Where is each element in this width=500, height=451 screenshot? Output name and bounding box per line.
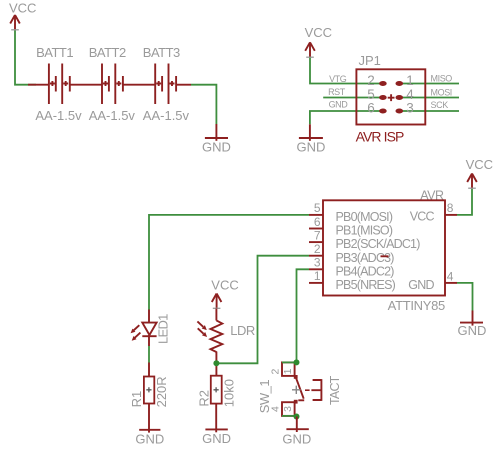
- power VCC (IC right): [466, 157, 493, 189]
- svg-text:1: 1: [406, 73, 414, 88]
- svg-text:MISO: MISO: [431, 73, 453, 83]
- svg-text:LED1: LED1: [156, 314, 171, 344]
- pin 6 stub: [309, 228, 323, 230]
- svg-text:TACT: TACT: [328, 375, 342, 405]
- wire JP1 MISO: [399, 83, 459, 85]
- resistor R1 220R: [129, 376, 169, 407]
- pin 8 stub: [445, 214, 457, 216]
- svg-text:AA-1.5v: AA-1.5v: [35, 108, 82, 123]
- svg-text:PB4(ADC2): PB4(ADC2): [336, 264, 395, 278]
- svg-text:PB1(MISO): PB1(MISO): [336, 224, 393, 238]
- svg-text:6: 6: [367, 101, 375, 116]
- svg-text:1: 1: [314, 269, 321, 283]
- pin 7 stub: [309, 241, 323, 243]
- svg-text:RST: RST: [328, 87, 346, 97]
- svg-text:VTG: VTG: [329, 74, 347, 84]
- svg-text:3: 3: [406, 101, 414, 116]
- wire JP1 RST stub: [323, 97, 383, 99]
- svg-text:220R: 220R: [154, 376, 169, 407]
- pin 2 stub: [309, 255, 323, 257]
- svg-text:AVR ISP: AVR ISP: [356, 129, 404, 145]
- power VCC (JP1): [305, 25, 332, 58]
- svg-text:2: 2: [269, 369, 281, 375]
- svg-text:R2: R2: [197, 390, 212, 407]
- svg-text:2: 2: [367, 73, 375, 88]
- switch SW_1 TACT: [257, 362, 342, 416]
- svg-text:GND: GND: [408, 278, 434, 292]
- svg-text:ATTINY85: ATTINY85: [388, 298, 445, 313]
- svg-text:R1: R1: [129, 391, 144, 408]
- svg-text:GND: GND: [202, 140, 231, 155]
- svg-text:LDR: LDR: [230, 323, 255, 338]
- wire SW_1 to GND: [296, 417, 298, 433]
- svg-text:4: 4: [447, 269, 454, 283]
- wire JP1 MOSI: [399, 97, 459, 99]
- wire pin4 to GND: [457, 283, 473, 311]
- svg-text:2: 2: [314, 242, 321, 256]
- svg-text:3: 3: [282, 406, 294, 412]
- battery BATT1: [35, 45, 82, 123]
- battery BATT2: [89, 45, 136, 123]
- svg-text:AA-1.5v: AA-1.5v: [89, 108, 136, 123]
- wire pin3 to SW_1: [297, 269, 310, 362]
- svg-text:PB3(ADC3): PB3(ADC3): [336, 251, 395, 265]
- svg-text:6: 6: [314, 215, 321, 229]
- connector JP1 (AVR ISP header): [356, 53, 425, 125]
- junction node SW_1 pin1: [294, 359, 300, 365]
- IC U1 ATTINY85: [323, 189, 445, 314]
- svg-text:3: 3: [314, 256, 321, 270]
- wire JP1 GND to ground: [310, 111, 383, 124]
- svg-text:SCK: SCK: [431, 100, 449, 110]
- svg-text:AA-1.5v: AA-1.5v: [143, 108, 190, 123]
- svg-text:MOSI: MOSI: [431, 87, 452, 97]
- wire battery pin stub left: [28, 84, 48, 86]
- pin names inside IC: [336, 210, 435, 292]
- power VCC (LDR): [211, 278, 238, 310]
- resistor LDR: [197, 309, 255, 377]
- node artifact over ADC3 C: [381, 255, 389, 257]
- wire battery chain to GND: [176, 84, 191, 86]
- ground GND (SW_1): [282, 429, 311, 446]
- svg-text:BATT3: BATT3: [143, 45, 180, 60]
- svg-text:JP1: JP1: [359, 53, 381, 68]
- svg-text:GND: GND: [329, 99, 349, 109]
- svg-text:BATT2: BATT2: [89, 45, 126, 60]
- wire BATT1 to BATT2: [70, 84, 102, 86]
- svg-text:PB2(SCK/ADC1): PB2(SCK/ADC1): [336, 237, 421, 251]
- wire BATT2 to BATT3: [123, 84, 155, 86]
- wire LED1 to R1: [148, 346, 150, 363]
- svg-text:GND: GND: [282, 432, 311, 447]
- svg-text:VCC: VCC: [466, 157, 493, 172]
- pin 3 stub: [309, 268, 323, 270]
- LED LED1: [131, 310, 171, 347]
- resistor R2 10k0: [197, 376, 237, 408]
- wire R2 to GND: [215, 404, 217, 433]
- wire pin5 to LED1: [149, 215, 309, 310]
- svg-text:10k0: 10k0: [221, 379, 236, 407]
- svg-text:VCC: VCC: [410, 210, 435, 224]
- wire R1 to GND: [148, 404, 150, 433]
- svg-text:VCC: VCC: [9, 1, 36, 16]
- ground GND (R2): [202, 429, 231, 446]
- wire JP1 SCK: [399, 110, 459, 112]
- junction node SW_1 pin3: [294, 414, 300, 420]
- pin numbers left: [314, 201, 321, 283]
- svg-text:BATT1: BATT1: [36, 45, 73, 60]
- pin 4 stub: [445, 282, 457, 284]
- junction node LDR/R2: [213, 360, 219, 366]
- wire VCC to battery chain: [15, 31, 36, 85]
- battery BATT3: [143, 45, 190, 123]
- svg-text:1: 1: [282, 368, 294, 374]
- svg-text:VCC: VCC: [211, 278, 238, 293]
- ground GND (battery): [202, 138, 231, 155]
- wire pin8 to VCC: [457, 189, 472, 215]
- wire VCC to JP1 pin VTG: [310, 58, 383, 84]
- svg-text:GND: GND: [135, 432, 164, 447]
- svg-text:VCC: VCC: [305, 25, 332, 40]
- svg-text:PB0(MOSI): PB0(MOSI): [336, 210, 393, 224]
- ground GND (JP1): [296, 138, 325, 155]
- pin 1 stub: [309, 282, 323, 284]
- ground GND (R1): [135, 430, 164, 447]
- svg-text:SW_1: SW_1: [257, 380, 272, 414]
- svg-text:7: 7: [314, 228, 321, 242]
- pin numbers right: [447, 201, 454, 283]
- svg-text:5: 5: [314, 201, 321, 215]
- svg-text:GND: GND: [458, 323, 487, 338]
- wire pin2 to LDR/R2 node: [216, 256, 309, 364]
- power VCC (battery, top-left): [9, 1, 36, 31]
- pin 5 stub: [309, 214, 323, 216]
- ground GND (IC right): [458, 323, 487, 338]
- svg-text:8: 8: [447, 201, 454, 215]
- svg-text:GND: GND: [296, 140, 325, 155]
- svg-text:GND: GND: [202, 431, 231, 446]
- svg-text:PB5(NRES): PB5(NRES): [336, 278, 396, 292]
